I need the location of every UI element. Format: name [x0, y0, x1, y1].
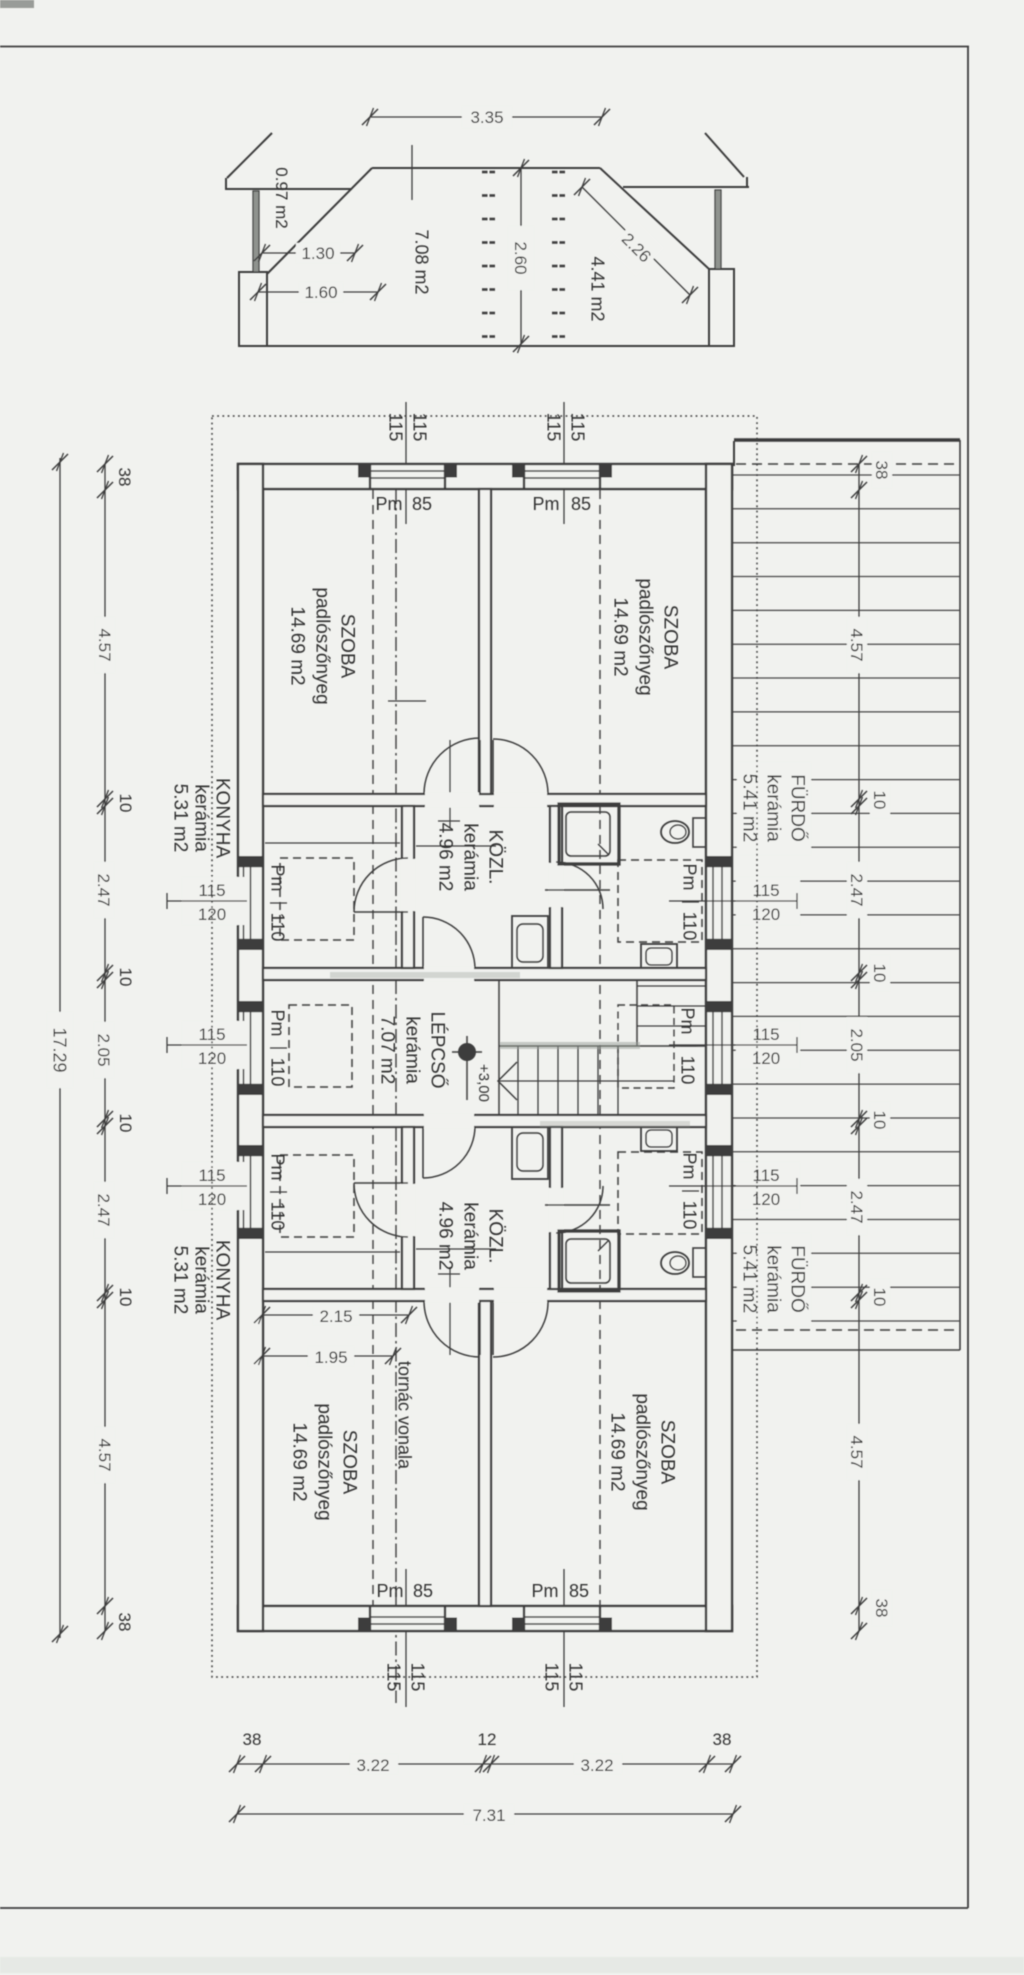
- kitchen2 counter edge line: [265, 1251, 400, 1253]
- svg-text:2.05: 2.05: [847, 1028, 866, 1061]
- dim line 1.30: [262, 252, 355, 254]
- door arc bath2: [556, 1186, 603, 1233]
- svg-text:38: 38: [243, 1730, 262, 1749]
- svg-text:SZOBA: SZOBA: [656, 1420, 677, 1485]
- stair tread lower 5: [597, 1046, 599, 1115]
- section left post: [253, 191, 259, 272]
- section right eave underside: [623, 186, 749, 188]
- left chain tick y=1126: [97, 1117, 113, 1135]
- dim text 2.26: [608, 220, 665, 277]
- svg-text:85: 85: [412, 494, 432, 514]
- section right post: [715, 190, 721, 269]
- axis dash-dot line left: [395, 490, 397, 1703]
- svg-text:Pm: Pm: [376, 494, 403, 514]
- svg-text:110: 110: [678, 1056, 698, 1085]
- door arc room BL: [424, 1301, 480, 1357]
- toilet bath1: [693, 818, 706, 847]
- scan smudge top-left corner: [0, 0, 34, 8]
- stair tread lower 1: [517, 1046, 519, 1115]
- svg-text:SZOBA: SZOBA: [659, 605, 680, 670]
- stair room dashed furniture: [289, 1005, 352, 1087]
- svg-text:120: 120: [752, 1049, 780, 1068]
- svg-text:38: 38: [713, 1730, 732, 1749]
- section reference line: [411, 145, 413, 200]
- svg-text:10: 10: [116, 1114, 135, 1133]
- window 2 centre line top: [563, 402, 565, 524]
- svg-text:110: 110: [268, 913, 288, 942]
- bottom chain tick x=707: [699, 1755, 715, 1773]
- svg-text:tornác vonala: tornác vonala: [395, 1361, 415, 1470]
- door arc kitchen1: [354, 858, 408, 912]
- svg-text:10: 10: [870, 1288, 889, 1307]
- left chain tick y=1300: [97, 1291, 113, 1309]
- stair tread lower 4: [577, 1046, 579, 1115]
- partition wall bottom rooms: [479, 1301, 491, 1606]
- door arc kitchen2: [354, 1183, 408, 1237]
- kitchen2 counter dashed: [280, 1155, 354, 1237]
- svg-text:kerámia: kerámia: [762, 774, 783, 842]
- left chain tick y=490: [97, 481, 113, 499]
- right chain tick y=1631: [851, 1622, 867, 1640]
- dim line 1.95: [262, 1355, 393, 1357]
- door opening hall1-room TR: [494, 793, 547, 808]
- window Pm110 right row3: [708, 1011, 730, 1085]
- window 4 centre line bottom: [563, 1569, 565, 1707]
- svg-text:Pm: Pm: [377, 1581, 404, 1601]
- right chain tick y=490: [851, 481, 867, 499]
- section ceiling line: [372, 167, 600, 169]
- svg-text:10: 10: [870, 1111, 889, 1130]
- wall hall1/bath1: [550, 806, 562, 968]
- faint scan band at bottom edge: [0, 1957, 1024, 1973]
- wall kitchen1/hall1: [402, 806, 414, 968]
- svg-text:FÜRDŐ: FÜRDŐ: [786, 774, 808, 842]
- door leaf room BR: [492, 1301, 494, 1355]
- svg-text:KÖZL.: KÖZL.: [484, 1209, 505, 1264]
- svg-text:2.47: 2.47: [847, 873, 866, 906]
- section floor line: [239, 345, 734, 347]
- svg-text:FÜRDŐ: FÜRDŐ: [786, 1245, 808, 1313]
- left dim chain line: [104, 464, 106, 1631]
- terrace top edge (thick): [734, 438, 960, 442]
- door opening hall1-stairs: [424, 967, 474, 982]
- axis dashed line right window: [599, 490, 601, 1605]
- left chain tick y=806: [97, 797, 113, 815]
- window Pm85 bottom-left: [370, 1608, 445, 1629]
- right chain tick y=799: [851, 790, 867, 808]
- section right knee-wall pedestal: [709, 269, 734, 346]
- svg-text:110: 110: [268, 1058, 288, 1087]
- washbasin hall2: [512, 1127, 548, 1179]
- svg-text:2.47: 2.47: [847, 1190, 866, 1223]
- svg-text:Pm: Pm: [680, 864, 700, 891]
- terrace right edge: [959, 440, 961, 1350]
- right chain tick y=1126: [851, 1117, 867, 1135]
- window Pm110 right row2: [708, 866, 730, 940]
- svg-text:7.08 m2: 7.08 m2: [412, 229, 432, 294]
- washbasin bath2: [641, 1127, 677, 1151]
- svg-text:padlószőnyeg: padlószőnyeg: [313, 1403, 334, 1520]
- svg-text:110: 110: [268, 1202, 288, 1231]
- right chain tick y=973: [851, 964, 867, 982]
- tick: [574, 178, 590, 196]
- bottom dim chain line: [237, 1763, 733, 1765]
- door dim tick hall1: [438, 820, 460, 822]
- svg-text:115: 115: [544, 413, 564, 442]
- door opening stairs-hall2: [424, 1114, 474, 1129]
- door leaf bath1: [545, 889, 610, 891]
- door dim tick hall2: [438, 1273, 460, 1275]
- svg-text:120: 120: [752, 905, 780, 924]
- svg-text:38: 38: [872, 461, 891, 480]
- door leaf kitchen2: [354, 1182, 408, 1184]
- window Pm85 top-right: [524, 466, 600, 487]
- svg-text:4.96 m2: 4.96 m2: [434, 823, 455, 892]
- outer wall left: [238, 464, 263, 1631]
- hall2 floor line: [416, 1248, 496, 1250]
- window 3 centre line bottom: [405, 1569, 407, 1707]
- right chain tick y=1293: [851, 1284, 867, 1302]
- page frame right line: [967, 47, 969, 1909]
- overall dim line 7.31: [237, 1813, 733, 1815]
- door arc room BR: [493, 1301, 548, 1357]
- stair well left edge: [498, 980, 500, 1115]
- section insulation dash column 2: [552, 171, 558, 174]
- svg-text:38: 38: [872, 1599, 891, 1618]
- bottom chain tick x=483: [475, 1755, 491, 1773]
- door dim line hall1: [449, 740, 451, 828]
- interior wall D: [263, 1289, 706, 1301]
- svg-text:kerámia: kerámia: [459, 1202, 480, 1270]
- svg-text:85: 85: [571, 494, 591, 514]
- page frame top line: [0, 46, 969, 48]
- door opening kitchen1: [401, 859, 416, 911]
- stair tread upper 1: [637, 985, 706, 987]
- door leaf room TR: [492, 740, 494, 794]
- label 115/120 right row3: [736, 1021, 800, 1069]
- stair break mark: [498, 1062, 517, 1100]
- section left knee-wall pedestal: [239, 272, 267, 346]
- door leaf room BL: [479, 1301, 481, 1355]
- window Pm85 top-left: [370, 466, 445, 487]
- dim line 2.60: [520, 168, 522, 344]
- svg-text:2.15: 2.15: [319, 1307, 352, 1326]
- door arc room TL: [424, 738, 480, 794]
- svg-text:115: 115: [410, 413, 430, 442]
- door opening kitchen2: [401, 1184, 416, 1236]
- svg-text:4.57: 4.57: [847, 628, 866, 661]
- svg-text:14.69 m2: 14.69 m2: [606, 1412, 627, 1491]
- svg-text:+3,00: +3,00: [475, 1064, 492, 1102]
- terrace dashed wall-axis bottom: [736, 1329, 960, 1331]
- door opening hall2-room BR: [494, 1288, 547, 1303]
- stair tread upper 3: [637, 1025, 706, 1027]
- bottom chain tick x=733: [725, 1755, 741, 1773]
- svg-text:38: 38: [115, 1613, 134, 1632]
- wall kitchen2/hall2: [402, 1127, 414, 1289]
- outer wall bottom: [238, 1606, 732, 1631]
- svg-text:2.05: 2.05: [94, 1033, 113, 1066]
- window Pm85 bottom-right: [524, 1608, 600, 1629]
- dotted roof-overhang boundary rectangle: [212, 416, 757, 1677]
- svg-text:4.57: 4.57: [95, 628, 114, 661]
- white box bath label 1: [737, 762, 811, 855]
- svg-text:KÖZL.: KÖZL.: [484, 830, 505, 885]
- svg-text:LÉPCSŐ: LÉPCSŐ: [426, 1011, 448, 1088]
- page frame bottom line: [0, 1907, 968, 1909]
- axis dashed line left window: [372, 490, 374, 1605]
- svg-text:kerámia: kerámia: [190, 1246, 211, 1314]
- svg-text:115: 115: [386, 413, 406, 442]
- svg-text:115: 115: [568, 413, 588, 442]
- interior wall C: [263, 1115, 706, 1127]
- door arc hall1-stairs: [423, 917, 475, 969]
- svg-text:10: 10: [116, 968, 135, 987]
- stair tread lower 3: [557, 1046, 559, 1115]
- stair tread lower 2: [537, 1046, 539, 1115]
- svg-text:2.47: 2.47: [94, 873, 113, 906]
- hall1 floor line: [416, 845, 496, 847]
- svg-text:KONYHA: KONYHA: [211, 778, 232, 859]
- section left roof slope: [227, 133, 272, 178]
- label 115/120 left row2: [182, 877, 247, 925]
- dim line 3.35: [370, 116, 602, 118]
- svg-text:Pm: Pm: [680, 1153, 700, 1180]
- outer wall right: [706, 464, 732, 1631]
- label 115/120 left row4: [182, 1162, 247, 1210]
- svg-text:14.69 m2: 14.69 m2: [609, 597, 630, 676]
- right chain tick y=1606: [851, 1597, 867, 1615]
- kitchen1 counter dashed: [280, 858, 354, 940]
- label 115/120 left row3: [182, 1021, 247, 1069]
- left chain tick y=464: [97, 455, 113, 473]
- window Pm110 right row4: [708, 1155, 730, 1229]
- svg-text:10: 10: [116, 1288, 135, 1307]
- svg-text:85: 85: [413, 1581, 433, 1601]
- white box bath label 2: [737, 1233, 811, 1326]
- svg-text:10: 10: [870, 964, 889, 983]
- level marker +3.00: [458, 1043, 476, 1061]
- washbasin hall1: [512, 916, 548, 968]
- svg-text:padlószőnyeg: padlószőnyeg: [311, 587, 332, 704]
- bath2 dashed bathtub area: [618, 1152, 702, 1234]
- stair mid line lower flight: [499, 1080, 674, 1082]
- svg-text:85: 85: [569, 1581, 589, 1601]
- svg-text:17.29: 17.29: [50, 1027, 70, 1072]
- interior wall A: [263, 794, 706, 806]
- shower tray bath2: [559, 1231, 619, 1291]
- svg-text:120: 120: [752, 1190, 780, 1209]
- interior wall B: [263, 968, 706, 980]
- svg-text:1.95: 1.95: [314, 1348, 347, 1367]
- door arc bath1: [556, 862, 603, 909]
- svg-text:10: 10: [870, 791, 889, 810]
- dim line 2.26: [582, 187, 690, 295]
- stair tread lower 6: [617, 1046, 619, 1115]
- svg-text:kerámia: kerámia: [459, 823, 480, 891]
- wall hall2/bath2: [550, 1127, 562, 1289]
- section insulation dash column 1: [482, 171, 488, 174]
- svg-text:2.47: 2.47: [94, 1193, 113, 1226]
- right chain tick y=464: [851, 455, 867, 473]
- door leaf kitchen1: [354, 911, 408, 913]
- window Pm110 left row4: [240, 1155, 261, 1229]
- toilet bath2: [693, 1248, 706, 1277]
- left chain tick y=1606: [97, 1597, 113, 1615]
- dim line 2.15: [262, 1314, 409, 1316]
- door opening hall2-room BL: [425, 1288, 479, 1303]
- door leaf stairs-hall2: [422, 1127, 424, 1178]
- terrace top-left connector: [733, 441, 735, 466]
- door leaf bath2: [545, 1204, 610, 1206]
- window Pm110 left row3: [240, 1011, 261, 1085]
- bottom chain tick x=237: [229, 1755, 245, 1773]
- svg-text:kerámia: kerámia: [190, 784, 211, 852]
- dim line 1.60: [258, 291, 378, 293]
- svg-text:5.31 m2: 5.31 m2: [169, 1246, 190, 1315]
- terrace hatch lines: [733, 474, 960, 476]
- svg-text:2.60: 2.60: [511, 241, 530, 274]
- shower tray bath1: [559, 804, 619, 864]
- door leaf room TL: [479, 740, 481, 794]
- svg-text:kerámia: kerámia: [401, 1016, 422, 1084]
- svg-text:110: 110: [680, 912, 700, 941]
- svg-text:38: 38: [115, 468, 134, 487]
- svg-text:115: 115: [198, 1025, 225, 1044]
- right chain tick y=1119: [851, 1110, 867, 1128]
- stair mid landing line: [499, 1045, 706, 1047]
- terrace dashed wall-axis top: [736, 463, 960, 465]
- door opening bath1: [549, 863, 564, 907]
- svg-text:7.07 m2: 7.07 m2: [376, 1016, 397, 1085]
- svg-text:Pm: Pm: [533, 494, 560, 514]
- svg-text:Pm: Pm: [268, 865, 288, 892]
- svg-text:Pm: Pm: [268, 1154, 288, 1181]
- svg-text:4.96 m2: 4.96 m2: [434, 1202, 455, 1271]
- section right roof fascia: [746, 177, 748, 187]
- overall dim line 17.29: [59, 458, 61, 1638]
- svg-text:3.22: 3.22: [580, 1756, 613, 1775]
- left chain tick y=799: [97, 790, 113, 808]
- tick: [682, 286, 698, 304]
- svg-text:110: 110: [680, 1201, 700, 1230]
- kitchen1 counter edge line: [265, 842, 400, 844]
- svg-text:0.97 m2: 0.97 m2: [272, 167, 291, 228]
- reference tick left room: [388, 700, 426, 702]
- svg-text:Pm: Pm: [678, 1008, 698, 1035]
- svg-text:14.69 m2: 14.69 m2: [286, 606, 307, 685]
- bottom chain tick x=491: [483, 1755, 499, 1773]
- door leaf hall1-stairs: [422, 917, 424, 968]
- door opening hall1-room TL: [425, 793, 479, 808]
- outer wall top: [238, 464, 732, 489]
- scanner smudge streaks: [500, 1042, 640, 1049]
- stair void dashed outline: [618, 1005, 674, 1088]
- left chain tick y=973: [97, 964, 113, 982]
- section right roof slope: [705, 133, 744, 177]
- door opening bath2: [549, 1188, 564, 1232]
- section left sloped ceiling: [267, 168, 372, 274]
- svg-text:SZOBA: SZOBA: [336, 614, 357, 679]
- svg-text:4.57: 4.57: [95, 1438, 114, 1471]
- left chain tick y=1631: [97, 1622, 113, 1640]
- section left roof fascia: [225, 178, 227, 189]
- terrace bottom edge: [732, 1349, 960, 1351]
- svg-text:4.41 m2: 4.41 m2: [588, 256, 608, 321]
- washbasin bath1: [641, 944, 677, 968]
- door arc room TR: [493, 739, 548, 794]
- svg-text:padlószőnyeg: padlószőnyeg: [634, 578, 655, 695]
- svg-text:1.30: 1.30: [301, 244, 334, 263]
- svg-text:14.69 m2: 14.69 m2: [288, 1422, 309, 1501]
- left chain tick y=1119: [97, 1110, 113, 1128]
- right chain tick y=980: [851, 971, 867, 989]
- left chain tick y=1293: [97, 1284, 113, 1302]
- svg-text:1.60: 1.60: [304, 283, 337, 302]
- svg-text:Pm: Pm: [268, 1010, 288, 1037]
- svg-text:3.35: 3.35: [470, 108, 503, 127]
- label 115/120 right row2: [736, 877, 800, 925]
- right chain tick y=1300: [851, 1291, 867, 1309]
- door arc stairs-hall2: [423, 1126, 475, 1178]
- svg-text:kerámia: kerámia: [762, 1245, 783, 1313]
- label 115/120 right row4: [736, 1162, 800, 1210]
- svg-text:padlószőnyeg: padlószőnyeg: [631, 1393, 652, 1510]
- svg-text:Pm: Pm: [532, 1581, 559, 1601]
- svg-text:SZOBA: SZOBA: [338, 1430, 359, 1495]
- svg-text:12: 12: [478, 1730, 497, 1749]
- door dim line hall2: [449, 1267, 451, 1355]
- svg-text:10: 10: [116, 794, 135, 813]
- right chain tick y=806: [851, 797, 867, 815]
- section left eave underside: [225, 188, 352, 190]
- svg-text:3.22: 3.22: [356, 1756, 389, 1775]
- window Pm110 left row2: [240, 866, 261, 940]
- stair tread upper 2: [637, 1005, 706, 1007]
- window 1 centre line top: [405, 402, 407, 524]
- bottom chain tick x=263: [255, 1755, 271, 1773]
- partition wall top rooms: [479, 489, 491, 794]
- svg-text:5.31 m2: 5.31 m2: [169, 784, 190, 853]
- right dim chain line: [858, 464, 860, 1631]
- svg-text:4.57: 4.57: [847, 1435, 866, 1468]
- section right sloped ceiling: [600, 168, 709, 269]
- stair upper flight edge: [636, 980, 638, 1046]
- svg-text:KONYHA: KONYHA: [211, 1240, 232, 1321]
- bath1 dashed bathtub area: [618, 860, 702, 942]
- left chain tick y=980: [97, 971, 113, 989]
- svg-text:7.31: 7.31: [472, 1806, 505, 1825]
